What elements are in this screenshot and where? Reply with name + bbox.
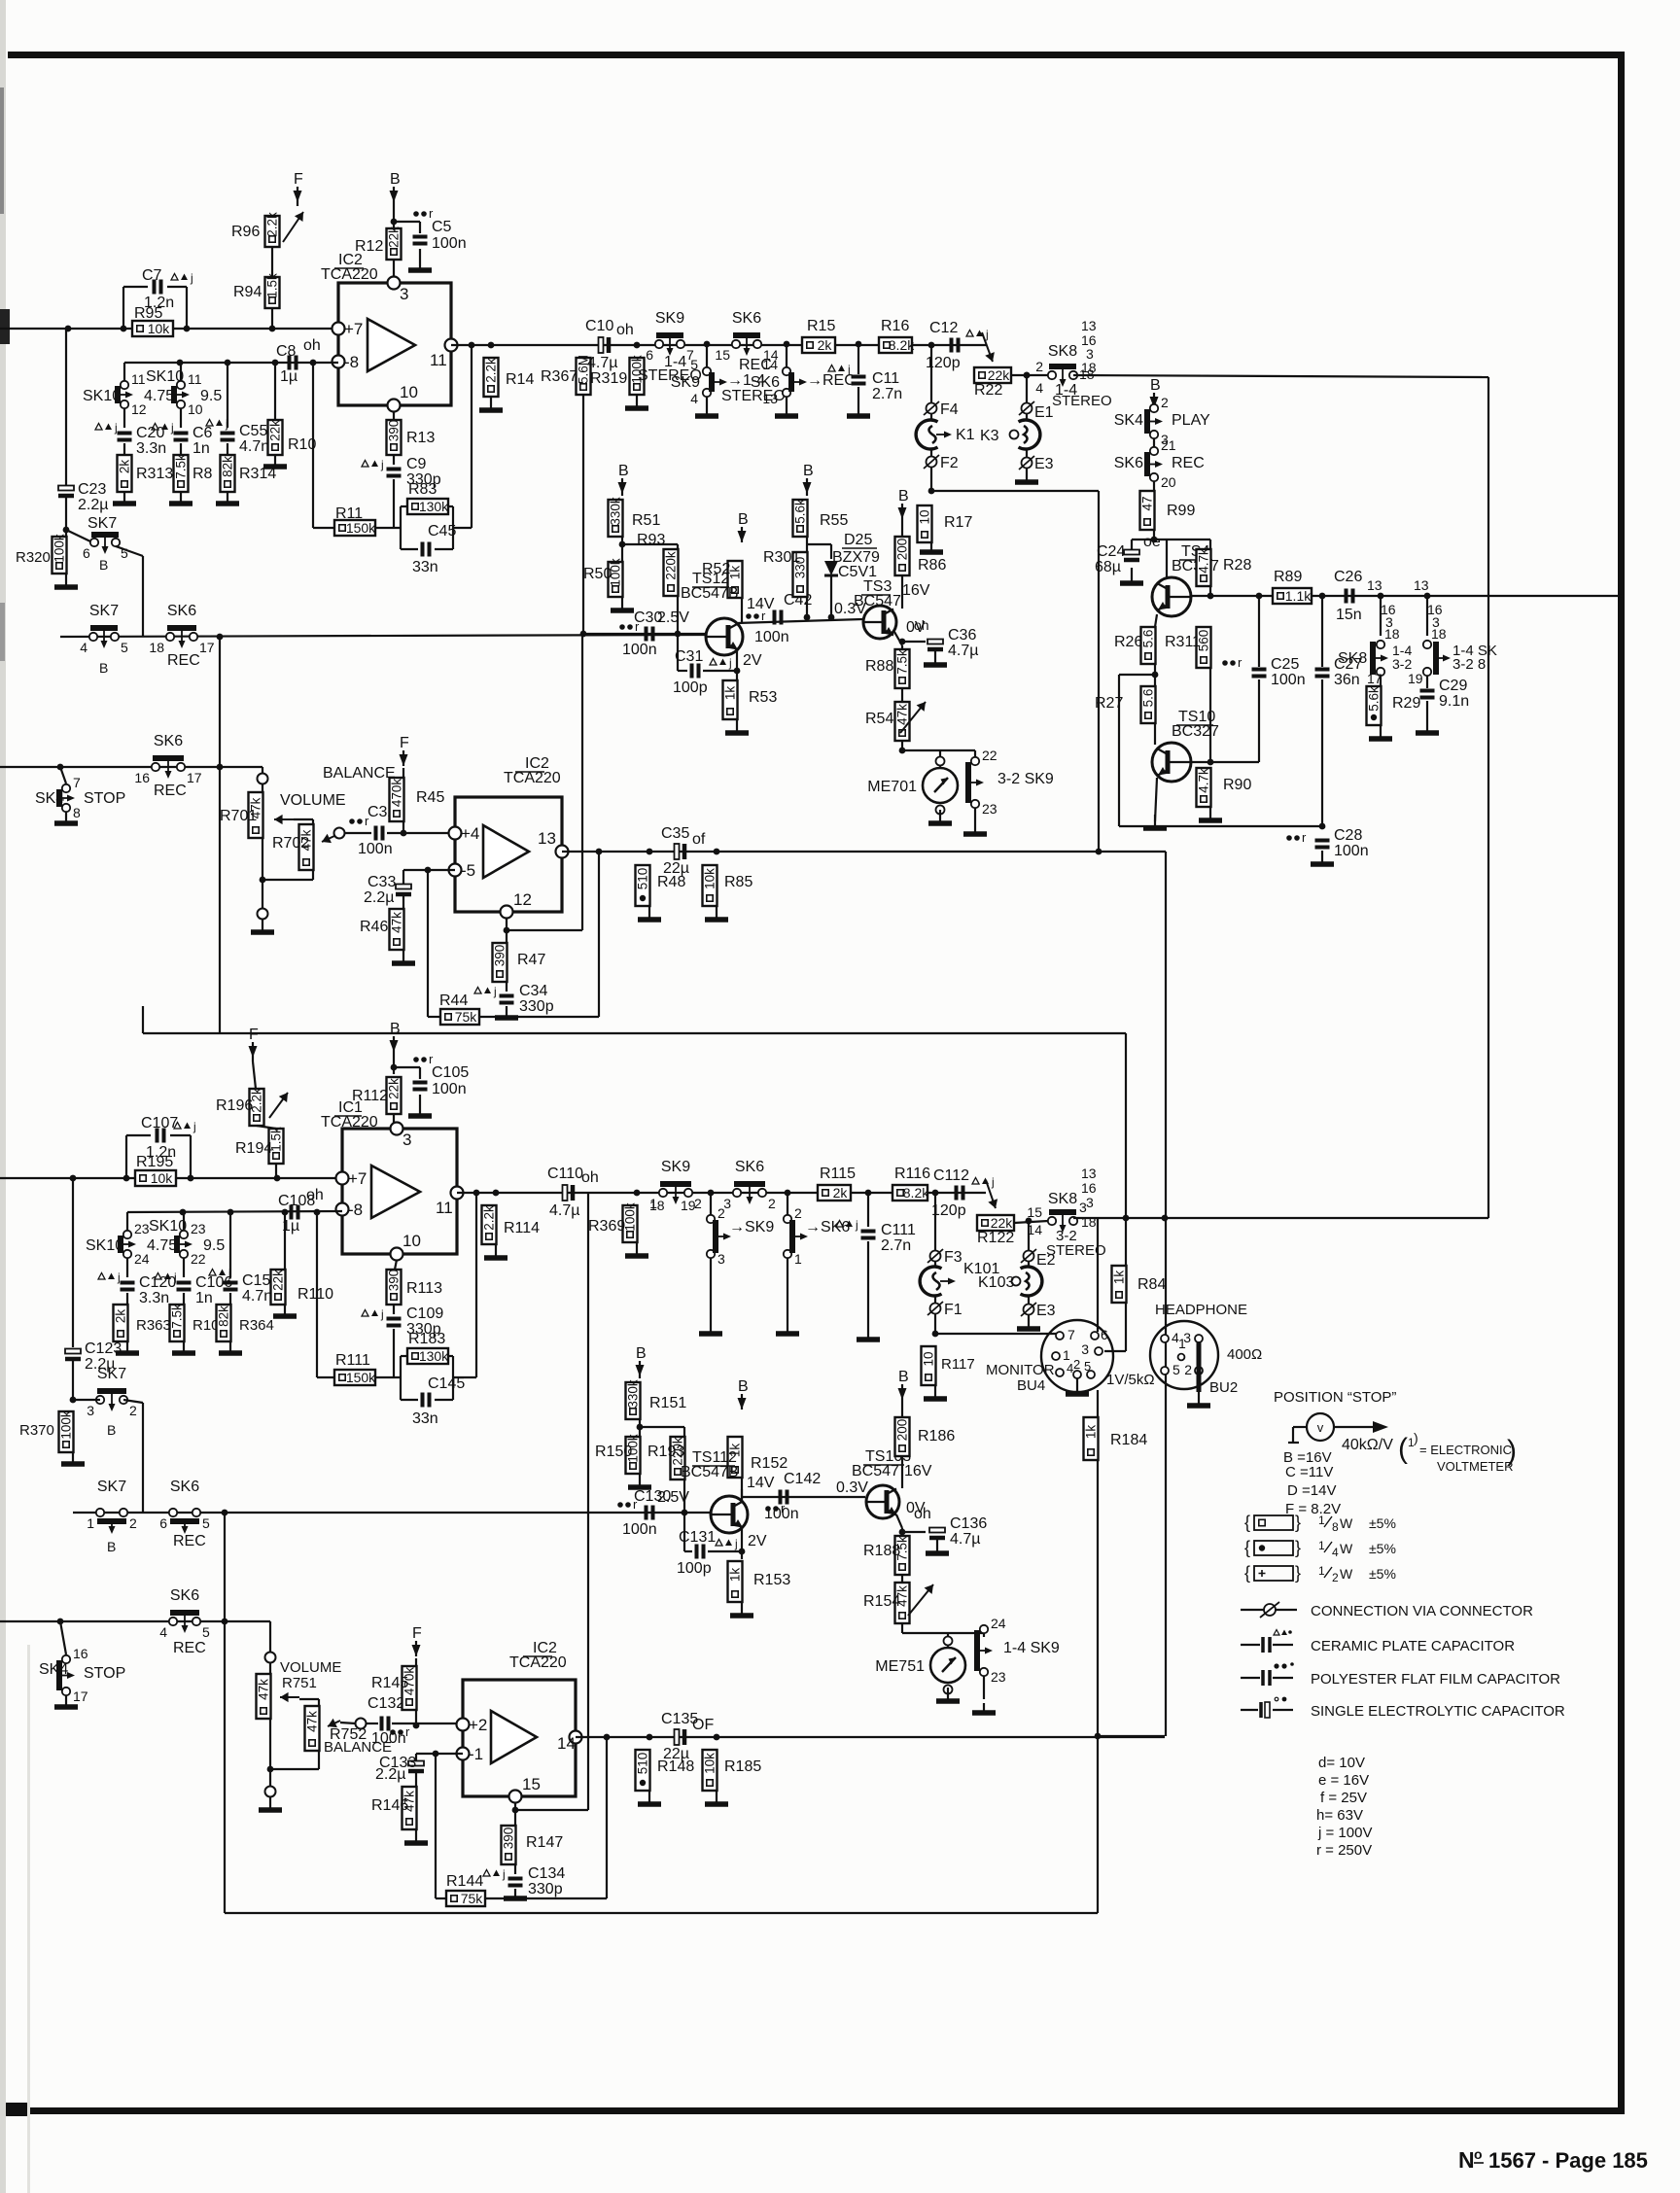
svg-text:47k: 47k <box>390 912 404 933</box>
ceramic marker C155 <box>209 1267 231 1280</box>
label STOPL <box>84 1665 125 1682</box>
label R83 <box>408 481 437 498</box>
wire R311 down <box>1209 668 1211 762</box>
svg-text:C131: C131 <box>679 1529 716 1546</box>
capacitor C112 <box>957 1186 963 1201</box>
node rail555 <box>1151 537 1158 543</box>
svg-text:C36: C36 <box>948 627 976 644</box>
value C29 9.1n <box>1439 693 1469 710</box>
wire row 1556 <box>73 1512 224 1514</box>
ground E3 lower <box>1017 1315 1040 1329</box>
supply F arrow lower <box>249 1027 260 1062</box>
legend 1/2 W <box>1244 1563 1396 1584</box>
node SK9bL <box>708 1190 715 1197</box>
svg-text:R185: R185 <box>724 1758 761 1775</box>
svg-text:VOLTMETER: VOLTMETER <box>1437 1459 1514 1474</box>
svg-text:C106: C106 <box>195 1274 232 1291</box>
svg-text:r: r <box>1302 830 1307 845</box>
svg-text:17: 17 <box>199 640 215 655</box>
label R45 <box>416 789 444 806</box>
svg-text:5: 5 <box>202 1515 210 1531</box>
svg-text:C8: C8 <box>276 343 297 360</box>
node C107 left <box>123 1175 130 1182</box>
label 1-4 SK9 L <box>1003 1640 1060 1656</box>
ground TS10 <box>1143 815 1167 828</box>
svg-text:C9: C9 <box>406 456 427 472</box>
label 3 skl <box>1079 1200 1087 1215</box>
svg-text:5.6k: 5.6k <box>793 499 808 524</box>
node pin12 <box>504 927 510 934</box>
svg-text:1k: 1k <box>728 1568 743 1583</box>
svg-text:2: 2 <box>768 1196 776 1211</box>
wire potL join <box>270 1768 319 1770</box>
svg-text:of: of <box>692 831 706 848</box>
wire C31 h2 <box>703 670 737 672</box>
svg-text:F: F <box>249 1027 259 1043</box>
node 1158/1253 <box>1123 1215 1130 1222</box>
node R369 top <box>634 1190 641 1197</box>
wire R112 to pin3 <box>393 1114 395 1129</box>
value 4.75 <box>144 388 174 404</box>
svg-text:j: j <box>170 421 174 435</box>
svg-text:33n: 33n <box>412 559 438 575</box>
connector BU2 headphone socket <box>1150 1321 1218 1392</box>
svg-text:PLAY: PLAY <box>1172 412 1210 429</box>
node C11 top <box>856 341 862 348</box>
wire R188-R154 <box>901 1575 903 1583</box>
wire SK9bL hang <box>710 1193 712 1215</box>
svg-text:8: 8 <box>1332 1520 1339 1534</box>
switch SK6 3-2 <box>723 1159 776 1211</box>
svg-text:22: 22 <box>982 748 997 763</box>
svg-text:j: j <box>493 985 497 998</box>
svg-text:SK7: SK7 <box>97 1479 126 1495</box>
wire meter drop <box>939 750 941 761</box>
value C26 15n <box>1336 607 1362 623</box>
node C7 right <box>184 326 191 332</box>
svg-text:C109: C109 <box>406 1305 443 1322</box>
resistor R110 <box>271 1270 286 1305</box>
ceramic marker C31 <box>710 656 732 670</box>
label C33 <box>367 874 396 890</box>
wire R147 stem <box>514 1814 516 1826</box>
label C8 <box>276 343 297 360</box>
wire C106-R108 <box>183 1293 185 1305</box>
value C136 4.7u <box>950 1531 980 1548</box>
svg-text:4.7µ: 4.7µ <box>948 643 978 659</box>
capacitor C134 <box>508 1879 523 1886</box>
svg-text:D25: D25 <box>844 532 872 548</box>
switch SK6 16-17 <box>134 733 201 785</box>
capacitor C136 <box>929 1528 945 1539</box>
trimmer arrow R22 <box>982 332 995 362</box>
wire main input upper <box>0 328 338 330</box>
svg-text:13: 13 <box>1081 1166 1097 1181</box>
svg-text:R93: R93 <box>637 532 665 548</box>
label R46 <box>360 919 388 935</box>
wire R84 to pin3 <box>1104 1350 1126 1352</box>
node R12/C5 <box>391 219 398 226</box>
svg-text:23: 23 <box>134 1221 150 1236</box>
supply B arrow R12 <box>390 171 401 206</box>
svg-text:CERAMIC PLATE CAPACITOR: CERAMIC PLATE CAPACITOR <box>1311 1638 1515 1654</box>
pin13 c1 <box>1367 577 1382 593</box>
legend B voltage <box>1283 1449 1332 1466</box>
wire R94 to input <box>271 308 273 329</box>
resistor R112 <box>387 1077 402 1114</box>
svg-text:R55: R55 <box>820 512 848 529</box>
svg-text:18: 18 <box>1431 626 1447 642</box>
capacitor C12 <box>952 338 959 353</box>
label C155 <box>242 1272 279 1289</box>
label R370 <box>19 1422 54 1439</box>
svg-text:2: 2 <box>794 1205 802 1221</box>
value C35 22u <box>663 860 689 877</box>
svg-text:R46: R46 <box>360 919 388 935</box>
wire pin15 down <box>514 1802 516 1814</box>
label 2.5V <box>657 609 689 626</box>
svg-text:r: r <box>405 1724 410 1739</box>
wire fb left <box>312 363 314 528</box>
capacitor C110 <box>563 1185 574 1201</box>
wire C27 down <box>1321 679 1323 826</box>
capacitor C145 <box>423 1393 430 1408</box>
label C130 <box>634 1488 671 1505</box>
resistor R751 volume pot <box>257 1674 271 1719</box>
wire midL out <box>576 1736 1165 1738</box>
svg-text:R186: R186 <box>918 1428 955 1445</box>
resistor R13 <box>387 420 402 455</box>
svg-text:j: j <box>734 1537 738 1550</box>
wire SK9bL gnd <box>710 1258 712 1326</box>
value 9.5 L <box>203 1237 225 1254</box>
node C131 emit <box>739 1549 746 1555</box>
wire E2-K103 <box>1028 1262 1030 1268</box>
svg-text:r: r <box>1238 655 1242 670</box>
capacitor C10 <box>599 337 610 353</box>
svg-text:9.5: 9.5 <box>203 1237 225 1254</box>
pin3 col <box>1086 346 1094 362</box>
svg-text:68µ: 68µ <box>1095 559 1121 575</box>
wire mid-left <box>1119 674 1155 676</box>
pin3 colL <box>1086 1195 1094 1210</box>
label C25 <box>1271 656 1299 673</box>
node potL bottom <box>265 1787 276 1797</box>
svg-text:22k: 22k <box>387 1078 402 1099</box>
node 505 <box>928 488 935 495</box>
wire fb to output <box>453 527 472 529</box>
node SK6bL <box>785 1190 791 1197</box>
node R320 top <box>63 527 70 534</box>
ground R17 <box>920 542 943 552</box>
wire TS12 emit <box>736 650 738 680</box>
wire wiper701 <box>294 818 313 820</box>
label R301 <box>763 549 800 566</box>
meter ME701 <box>867 757 958 815</box>
wire stopL drop <box>60 1621 66 1654</box>
wire R122 to SK8L <box>1014 1221 1048 1223</box>
svg-text:R8: R8 <box>192 466 213 482</box>
wire C33-R46 <box>402 896 404 909</box>
ceramic marker C12 <box>966 328 989 341</box>
node -5 a <box>425 867 432 874</box>
node TS12 base <box>675 631 682 638</box>
label 400ohm <box>1227 1346 1262 1363</box>
wire C32 to +4 <box>387 832 455 834</box>
svg-text:400Ω: 400Ω <box>1227 1346 1262 1363</box>
svg-text:470k: 470k <box>390 779 404 808</box>
value C135 22u <box>663 1746 689 1762</box>
wire pin6 link <box>66 530 90 541</box>
svg-text:1k: 1k <box>1084 1425 1099 1440</box>
label STEREO a <box>638 367 702 384</box>
resistor R752 balance pot <box>305 1706 320 1751</box>
resistor R47 <box>493 943 507 982</box>
svg-text:2.7n: 2.7n <box>881 1237 911 1254</box>
label SK4 stop <box>35 790 64 807</box>
svg-text:40kΩ/V: 40kΩ/V <box>1342 1437 1393 1453</box>
svg-text:R150: R150 <box>595 1444 632 1460</box>
value C55 4.7n <box>239 438 269 455</box>
svg-text:-8: -8 <box>348 1201 363 1219</box>
svg-text:2.2k: 2.2k <box>482 1205 497 1231</box>
ground ME701 <box>928 810 952 823</box>
svg-text:R89: R89 <box>1274 569 1302 585</box>
label C34 <box>519 983 547 999</box>
svg-text:R313: R313 <box>136 466 173 482</box>
node C111 top <box>865 1190 872 1197</box>
svg-text:15: 15 <box>522 1775 541 1793</box>
wire SK10L col2 up <box>183 1212 185 1231</box>
capacitor C27 <box>1315 670 1330 677</box>
wire R154 down <box>901 1623 903 1633</box>
resistor R363 <box>114 1305 128 1341</box>
capacitor C130 <box>647 1506 653 1520</box>
label C111 <box>881 1222 916 1238</box>
wiper R751 <box>280 1692 299 1702</box>
page top border <box>8 52 1624 58</box>
svg-text:d= 10V: d= 10V <box>1318 1755 1365 1771</box>
wire C132 to +2 <box>392 1723 463 1724</box>
ground C105 <box>408 1095 432 1116</box>
label PLAY <box>1172 412 1210 429</box>
svg-text:3-2: 3-2 <box>1392 656 1412 672</box>
wire R196-R194 <box>257 1126 276 1129</box>
wire C7 bridge top L <box>123 286 148 288</box>
svg-text:C35: C35 <box>661 825 689 842</box>
wire SK9c gnd <box>974 808 976 824</box>
wire C27 stem <box>1321 596 1323 667</box>
resistor R154 <box>895 1583 910 1623</box>
ground R48 <box>638 906 661 920</box>
ground R363 <box>116 1341 139 1353</box>
node C107 right <box>188 1175 194 1182</box>
wire R13-C9 <box>393 455 395 465</box>
wire TS4 emit down <box>1155 614 1157 627</box>
svg-text:100p: 100p <box>677 1560 712 1577</box>
svg-text:HEADPHONE: HEADPHONE <box>1155 1302 1247 1318</box>
wire sk7L left <box>73 1399 100 1401</box>
svg-text:}: } <box>1295 1563 1301 1583</box>
connector E3 lower <box>1021 1303 1056 1319</box>
node R301 base <box>804 614 811 621</box>
resistor R301 <box>793 552 808 597</box>
label C135 <box>661 1711 698 1727</box>
connector F4 <box>924 401 959 418</box>
value C130 100n <box>622 1521 657 1538</box>
svg-text:14: 14 <box>762 357 778 372</box>
svg-text:10: 10 <box>918 509 932 524</box>
node D25 base <box>828 614 835 621</box>
node F3 top <box>932 1190 939 1197</box>
resistor R54 <box>895 702 910 741</box>
poly marker C25 <box>1222 655 1242 670</box>
svg-text:SK7: SK7 <box>87 515 117 532</box>
node C7 left <box>121 326 127 332</box>
svg-text:3.3n: 3.3n <box>136 440 166 457</box>
wire IC2 out <box>451 344 986 346</box>
resistor R185 <box>703 1750 717 1791</box>
svg-text:16V: 16V <box>902 582 930 599</box>
resistor R53 <box>723 680 738 719</box>
svg-text:R115: R115 <box>820 1166 856 1182</box>
ground R146 <box>404 1829 428 1843</box>
wire rail 1468 <box>640 1426 684 1428</box>
ground R320 <box>54 574 78 587</box>
connector F3 <box>927 1249 962 1266</box>
resistor R370 <box>59 1410 74 1452</box>
wire SK8 to right <box>1073 375 1488 377</box>
switch SK10 23-24 <box>121 1221 150 1267</box>
ceramic marker C107 <box>174 1120 196 1133</box>
wire R11-R83 loop in <box>375 527 401 529</box>
svg-text:R44: R44 <box>439 992 468 1009</box>
op-amp IC1 <box>336 1123 464 1261</box>
ground C36 <box>924 649 947 665</box>
svg-text:R17: R17 <box>944 514 972 531</box>
svg-text:22k: 22k <box>991 1215 1014 1231</box>
ground C28 <box>1311 851 1334 864</box>
svg-text:SK7: SK7 <box>89 603 119 619</box>
label 2V <box>743 652 762 669</box>
ground C111 <box>857 1330 880 1340</box>
wire potL gnd1 <box>269 1769 271 1787</box>
wire vol t2 <box>262 783 263 792</box>
label C5 <box>432 219 452 235</box>
label 1V/5k <box>1106 1372 1155 1388</box>
wire R751 low <box>269 1719 271 1769</box>
wire box stub <box>142 1006 144 1033</box>
resistor R115 <box>818 1185 851 1201</box>
resistor R114 <box>482 1205 497 1244</box>
label 18 skl <box>1081 1214 1097 1230</box>
switch SK6 14-13 <box>751 357 807 406</box>
wire C107 bridge right <box>190 1135 192 1178</box>
svg-text:2: 2 <box>1184 1362 1192 1377</box>
resistor R15 <box>802 337 835 353</box>
value C36 4.7u <box>948 643 978 659</box>
node 231/1556 <box>222 1510 228 1516</box>
ground R90 <box>1199 807 1222 820</box>
node R90 top <box>1207 759 1214 766</box>
svg-text:15: 15 <box>715 347 730 363</box>
label SK6 vb <box>805 1219 850 1236</box>
svg-text:R50: R50 <box>583 566 612 582</box>
label R145 <box>371 1675 408 1691</box>
resistor R17 <box>918 505 932 542</box>
label BALANCE L <box>324 1739 392 1756</box>
wire fb3 riser <box>435 1754 437 1898</box>
svg-text:j: j <box>192 1120 196 1133</box>
wire TS103 emit <box>896 1514 902 1528</box>
svg-text:SK7: SK7 <box>97 1366 126 1382</box>
underline TS3 <box>861 594 891 596</box>
label C110 oh <box>581 1169 599 1186</box>
svg-text:150k: 150k <box>346 1370 376 1385</box>
capacitor C34 <box>500 996 514 1003</box>
label TS103 id <box>865 1448 911 1465</box>
ground R114 <box>484 1244 507 1258</box>
wire 1786 corner <box>1098 1735 1165 1737</box>
wire -1 rail <box>416 1753 463 1755</box>
node mid out <box>1152 672 1159 679</box>
label B sk7L <box>107 1422 116 1438</box>
svg-text:C11: C11 <box>872 370 899 387</box>
node outL a <box>473 1190 480 1197</box>
wire x605 long <box>587 1513 589 1810</box>
supply B arrow R152 <box>738 1378 749 1410</box>
ground C24 <box>1120 568 1143 583</box>
resistor R184 <box>1084 1417 1099 1460</box>
wire rail 850 <box>1119 825 1322 827</box>
wire C107 bridge top L <box>126 1134 151 1136</box>
svg-text:2: 2 <box>1161 395 1169 410</box>
label R47 <box>517 952 545 968</box>
svg-text:j: j <box>225 417 228 431</box>
wire C131 h2 <box>708 1550 742 1552</box>
svg-text:C105: C105 <box>432 1064 469 1081</box>
svg-text:7: 7 <box>1067 1327 1075 1342</box>
value C31 100p <box>673 679 708 696</box>
wire C6-R8 <box>180 443 182 455</box>
label R53 <box>749 689 777 706</box>
trimmer arrow R54 <box>900 702 926 733</box>
wire C25 down <box>1258 679 1260 762</box>
wire C11 gnd <box>857 387 859 408</box>
connector F2 <box>924 455 959 471</box>
svg-text:= ELECTRONIC: = ELECTRONIC <box>1419 1443 1512 1457</box>
svg-text:B: B <box>898 488 909 505</box>
label 14V <box>747 596 775 612</box>
svg-text:2.5V: 2.5V <box>657 609 689 626</box>
label TS10 id <box>1178 709 1215 725</box>
label C24 <box>1097 543 1125 560</box>
wire R52-coll <box>741 598 743 623</box>
wire x147L down <box>142 1403 144 1513</box>
svg-text:C28: C28 <box>1334 827 1362 844</box>
label R114 <box>504 1220 540 1236</box>
node 1372 <box>932 1331 939 1338</box>
resistor R44 <box>440 1009 479 1025</box>
node 226/789 <box>217 764 224 771</box>
legend f volt <box>1320 1790 1367 1806</box>
wire R84 down <box>1125 1303 1127 1351</box>
svg-text:R370: R370 <box>19 1422 54 1439</box>
svg-text:16: 16 <box>134 770 150 785</box>
wire R12 to pin3 <box>393 260 395 283</box>
svg-text:R45: R45 <box>416 789 444 806</box>
svg-text:oh: oh <box>914 1506 931 1522</box>
